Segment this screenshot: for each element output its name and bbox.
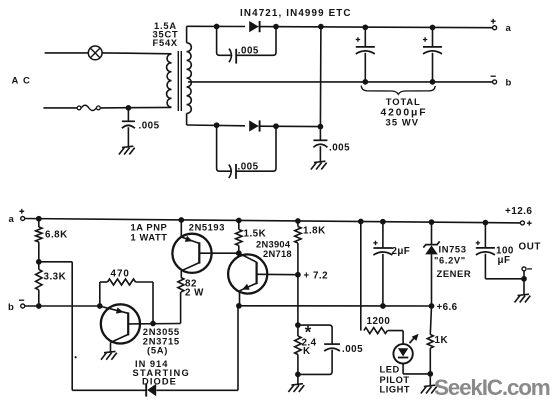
label 1K bbox=[435, 335, 449, 346]
wire starting diode row bbox=[72, 306, 238, 391]
polarity + 100uF bbox=[476, 241, 480, 245]
label 3.3K bbox=[44, 271, 67, 282]
Q3 base lead bbox=[100, 306, 128, 313]
wire divider to starting diode bbox=[39, 262, 72, 391]
capacitor .005 D1 bypass bbox=[229, 49, 236, 64]
label 2N3055 2N3715 (5A) bbox=[143, 326, 180, 356]
svg-text:2N718: 2N718 bbox=[263, 249, 292, 259]
svg-text:1200: 1200 bbox=[367, 316, 391, 327]
watermark SeekIC.com bbox=[434, 375, 550, 400]
wire 2.4K to ground bbox=[297, 374, 299, 384]
node 1200 branch top bbox=[358, 219, 364, 225]
node filter cap1 top bbox=[362, 24, 368, 30]
wire AC hot lead bbox=[45, 52, 89, 54]
node 1K-LED junction bbox=[427, 371, 433, 377]
wire regulator + rail bbox=[25, 219, 521, 223]
label IN4721, IN4999 ETC bbox=[240, 8, 352, 19]
svg-text:1 WATT: 1 WATT bbox=[131, 232, 168, 242]
terminal a input bbox=[21, 217, 25, 221]
diode D1 IN4721 bbox=[249, 21, 259, 32]
LED arrow bbox=[410, 334, 419, 343]
ground 2.4K bbox=[288, 384, 304, 392]
wire D2 bypass loop bbox=[217, 125, 276, 171]
terminal - output bbox=[522, 267, 526, 271]
capacitor filter C1 2100uF bbox=[356, 27, 375, 82]
polarity - output bbox=[527, 268, 532, 270]
resistor 82 2W bbox=[178, 271, 184, 324]
node zener top bbox=[429, 219, 435, 225]
svg-text:.005: .005 bbox=[238, 162, 259, 173]
label 2uF bbox=[392, 246, 411, 257]
Q1 emitter lead bbox=[181, 220, 199, 243]
svg-text:1A PNP: 1A PNP bbox=[131, 222, 168, 232]
ground line cap bbox=[119, 146, 135, 154]
label a output bbox=[506, 23, 512, 34]
Q1 arrow bbox=[185, 236, 193, 242]
label 100 uF bbox=[496, 246, 514, 267]
node D1 cathode bbox=[273, 24, 279, 30]
resistor 1K bbox=[427, 306, 433, 374]
svg-text:35 WV: 35 WV bbox=[386, 117, 420, 128]
terminal +12.6 output bbox=[520, 221, 524, 225]
node D2 cathode bbox=[273, 123, 279, 129]
polarity + input a bbox=[19, 209, 24, 214]
label transformer 1.5A 35CT F54X bbox=[153, 21, 179, 48]
svg-text:a: a bbox=[9, 214, 15, 225]
wire center-tap rail bbox=[188, 81, 493, 83]
svg-text:IN753: IN753 bbox=[439, 244, 467, 255]
Q1 bar bbox=[198, 242, 200, 263]
diode D2 IN4721 bbox=[249, 120, 259, 131]
svg-text:.005: .005 bbox=[139, 121, 160, 132]
svg-text:OUT: OUT bbox=[519, 242, 541, 253]
label 6.8K bbox=[45, 229, 68, 240]
label IN753 6.2V ZENER bbox=[434, 244, 471, 280]
svg-text:2μF: 2μF bbox=[392, 246, 411, 257]
svg-text:LED: LED bbox=[380, 365, 400, 375]
node 2uF top bbox=[380, 219, 386, 225]
svg-text:+ 7.2: + 7.2 bbox=[304, 270, 329, 281]
wire secondary top lead bbox=[186, 26, 188, 43]
diode IN914 starting bbox=[146, 383, 156, 396]
wire +6.6 rail bbox=[239, 305, 432, 307]
wire AC neutral lead bbox=[43, 107, 77, 109]
label b input bbox=[8, 302, 14, 313]
node 2uF bottom bbox=[380, 303, 386, 309]
capacitor .005 line bypass bbox=[122, 108, 135, 147]
Q3 emitter lead bbox=[111, 334, 129, 352]
label a input bbox=[9, 214, 15, 225]
Q3 arrow bbox=[116, 307, 124, 313]
label 82 2W bbox=[185, 278, 204, 298]
wire lamp to transformer bbox=[102, 52, 171, 55]
Q1 base lead bbox=[199, 252, 239, 254]
transformer core bbox=[178, 51, 181, 111]
transformer secondary winding bbox=[187, 43, 192, 114]
label +7.2 bbox=[304, 270, 329, 281]
wire 1K to ground bbox=[429, 374, 431, 386]
terminal b output bbox=[493, 80, 497, 84]
lamp pilot (circle-X) bbox=[88, 46, 102, 60]
node Q1 base / Q2 base bbox=[236, 250, 242, 256]
LED bar bbox=[398, 357, 408, 359]
polarity - terminal b bbox=[491, 75, 496, 77]
node D1 anode bbox=[214, 24, 220, 30]
node pass transistor emitter bbox=[178, 217, 184, 223]
svg-text:.005: .005 bbox=[238, 46, 259, 57]
svg-text:1.5K: 1.5K bbox=[244, 229, 267, 240]
speck artifact bbox=[75, 356, 77, 358]
LED triangle bbox=[398, 348, 408, 356]
svg-text:6.8K: 6.8K bbox=[45, 229, 68, 240]
wire + rail to bottom row tie bbox=[319, 27, 322, 127]
svg-text:2N5193: 2N5193 bbox=[189, 223, 225, 233]
Q2 bar bbox=[256, 262, 258, 284]
Q2 base lead bbox=[239, 253, 257, 262]
resistor 1.5K bbox=[236, 221, 242, 254]
label .005 D1 bypass bbox=[238, 46, 259, 57]
wire b rail bbox=[25, 305, 100, 307]
svg-text:F54X: F54X bbox=[153, 38, 178, 48]
capacitor .005 to ground bbox=[313, 127, 327, 162]
transistor Q2 2N3904 circle bbox=[228, 254, 267, 293]
svg-text:ZENER: ZENER bbox=[437, 268, 472, 279]
svg-text:a: a bbox=[506, 23, 512, 34]
svg-text:2 W: 2 W bbox=[185, 288, 204, 299]
resistor 470 bbox=[100, 279, 153, 324]
wire fuse to transformer bbox=[100, 106, 171, 109]
node output ground tie bbox=[521, 276, 527, 282]
node 3.3K bottom bbox=[36, 303, 42, 309]
wire +7.2 to 2.4K bbox=[297, 275, 299, 325]
svg-text:A C: A C bbox=[12, 76, 32, 87]
wire rail to 1200 bbox=[360, 222, 362, 331]
svg-text:IN4721, IN4999 ETC: IN4721, IN4999 ETC bbox=[240, 8, 352, 19]
node junction .005 line cap bbox=[126, 105, 132, 111]
Q2 collector lead bbox=[257, 273, 298, 275]
transformer primary winding bbox=[167, 54, 172, 107]
polarity + output 12.6 bbox=[527, 221, 532, 226]
resistor 1.8K bbox=[295, 221, 301, 275]
wire - terminal to ground bbox=[523, 271, 525, 295]
polarity - input b bbox=[19, 299, 24, 301]
label AC input bbox=[12, 76, 32, 87]
label 2.4K bbox=[302, 337, 317, 357]
label TOTAL 4200uF 35WV bbox=[381, 96, 428, 128]
label asterisk bbox=[305, 324, 312, 342]
label OUT bbox=[519, 242, 541, 253]
svg-text:DIODE: DIODE bbox=[142, 376, 177, 386]
resistor 2.4K star bbox=[295, 325, 301, 374]
svg-text:.005: .005 bbox=[329, 143, 350, 154]
Q2 emitter lead bbox=[240, 283, 257, 306]
wire LED to 1K bottom bbox=[403, 364, 430, 374]
svg-text:LIGHT: LIGHT bbox=[380, 385, 411, 395]
svg-text:b: b bbox=[506, 78, 512, 89]
Q2 arrow bbox=[242, 284, 250, 290]
zener IN753 symbol bbox=[423, 241, 439, 254]
node 2.4K top bbox=[295, 322, 301, 328]
node 1.5K top bbox=[236, 218, 242, 224]
label 1A PNP 1 WATT bbox=[131, 222, 168, 242]
capacitor 100uF bbox=[476, 223, 524, 279]
svg-text:SeekIC.com: SeekIC.com bbox=[434, 375, 550, 400]
resistor 6.8K bbox=[36, 219, 42, 262]
wire 1200 to LED bbox=[402, 331, 404, 345]
transistor Q1 2N5193 circle bbox=[172, 234, 211, 273]
Q1 collector lead bbox=[181, 263, 199, 271]
label +12.6 bbox=[505, 206, 532, 217]
node 100uF top bbox=[483, 220, 489, 226]
label LED PILOT LIGHT bbox=[380, 365, 411, 395]
capacitor filter C2 2100uF bbox=[423, 28, 442, 82]
label .005 across 2.4K bbox=[342, 344, 363, 355]
svg-text:3.3K: 3.3K bbox=[44, 271, 67, 282]
label 1200 bbox=[367, 316, 391, 327]
svg-text:.005: .005 bbox=[342, 344, 363, 355]
node 1.8K top bbox=[295, 218, 301, 224]
label .005 D2 bypass bbox=[238, 162, 259, 173]
svg-text:1.8K: 1.8K bbox=[303, 225, 326, 236]
label +6.6 bbox=[437, 302, 458, 313]
wire bottom rectifier row bbox=[187, 125, 321, 127]
brace total capacitance bbox=[361, 86, 435, 95]
ground output bbox=[515, 294, 531, 302]
label 470 bbox=[111, 269, 130, 280]
polarity + 2uF bbox=[373, 241, 377, 245]
polarity + terminal a bbox=[491, 19, 496, 24]
node filter cap2 top bbox=[430, 25, 436, 31]
fuse F54X bbox=[77, 105, 100, 110]
label 2N5193 bbox=[189, 223, 225, 233]
node +7.2 bbox=[295, 272, 301, 278]
wire top rectifier rail bbox=[187, 26, 493, 27]
node zener bottom bbox=[429, 303, 435, 309]
node Q3 collector / 470 bbox=[150, 321, 156, 327]
zener IN753 branch bbox=[431, 222, 433, 306]
node filter cap2 bottom bbox=[430, 79, 436, 85]
label 1.5K bbox=[244, 229, 267, 240]
svg-text:1K: 1K bbox=[435, 335, 449, 346]
terminal a output bbox=[493, 26, 497, 30]
svg-text:K: K bbox=[303, 346, 311, 357]
svg-text:(5A): (5A) bbox=[147, 345, 168, 356]
svg-text:+12.6: +12.6 bbox=[505, 206, 532, 217]
label 2N3904 2N718 bbox=[256, 240, 292, 259]
svg-text:μF: μF bbox=[498, 255, 511, 266]
node vertical tie top bbox=[318, 24, 324, 30]
terminal b input bbox=[21, 304, 25, 308]
ground rectifier cap bbox=[311, 161, 327, 169]
resistor 3.3K bbox=[36, 262, 42, 306]
svg-text:TOTAL: TOTAL bbox=[386, 96, 421, 107]
resistor 1200 bbox=[364, 328, 403, 334]
transistor Q3 2N3055 circle bbox=[101, 304, 140, 343]
svg-text:b: b bbox=[8, 302, 14, 313]
label b output bbox=[506, 78, 512, 89]
Q3 collector lead bbox=[128, 323, 180, 325]
wire secondary bottom lead bbox=[186, 113, 188, 125]
node 6.8K top bbox=[36, 216, 42, 222]
node filter cap1 bottom bbox=[362, 79, 368, 85]
label 1.8K bbox=[303, 225, 326, 236]
svg-text:"6.2V": "6.2V" bbox=[434, 255, 466, 266]
label .005 line cap bbox=[139, 121, 160, 132]
node Q2 emitter rail bbox=[236, 303, 242, 309]
ground Q3 emitter bbox=[101, 351, 117, 359]
ground 1K LED bbox=[421, 385, 437, 393]
LED pilot light circle bbox=[393, 344, 412, 363]
Q3 bar bbox=[127, 312, 129, 335]
wire D1 bypass loop bbox=[217, 27, 276, 56]
capacitor .005 across 2.4K bbox=[298, 325, 340, 374]
label IN914 STARTING DIODE bbox=[133, 359, 191, 386]
polarity + filter C2 bbox=[423, 37, 427, 41]
capacitor 2uF bbox=[373, 222, 392, 306]
polarity + filter C1 bbox=[356, 37, 360, 41]
node D2 anode bbox=[214, 122, 220, 128]
node Q3 base bbox=[97, 303, 103, 309]
node 2.4K bottom bbox=[295, 372, 301, 378]
label .005 ground cap bbox=[329, 143, 350, 154]
svg-text:+6.6: +6.6 bbox=[437, 302, 458, 313]
node bottom row tie bbox=[318, 124, 324, 130]
node 6.8K-3.3K junction bbox=[36, 259, 42, 265]
svg-text:470: 470 bbox=[111, 269, 130, 280]
capacitor .005 D2 bypass bbox=[229, 164, 236, 179]
